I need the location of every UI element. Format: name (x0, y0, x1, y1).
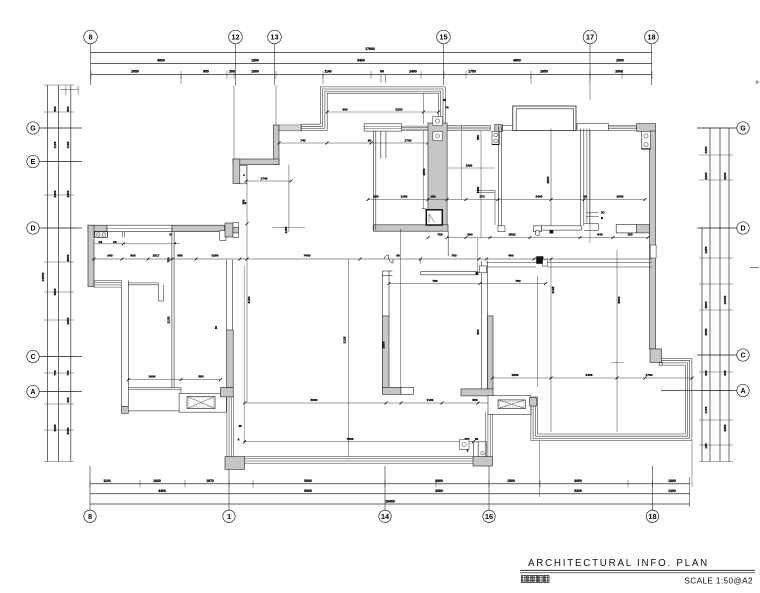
svg-text:16: 16 (485, 512, 493, 521)
svg-text:780: 780 (451, 254, 456, 258)
svg-text:13: 13 (270, 33, 278, 42)
svg-text:250: 250 (373, 195, 378, 199)
svg-text:C: C (30, 354, 35, 361)
svg-text:5050: 5050 (66, 427, 70, 434)
svg-text:1800: 1800 (149, 375, 156, 379)
svg-text:8: 8 (88, 33, 92, 42)
svg-text:1100: 1100 (427, 398, 434, 402)
svg-text:B: B (601, 216, 603, 220)
svg-text:D: D (740, 226, 745, 233)
svg-text:1500: 1500 (512, 373, 519, 377)
svg-text:5000: 5000 (311, 398, 318, 402)
svg-text:1750: 1750 (468, 70, 476, 74)
svg-text:700: 700 (53, 370, 57, 375)
svg-text:200: 200 (229, 70, 235, 74)
svg-text:4600: 4600 (704, 301, 708, 308)
svg-text:2950: 2950 (540, 70, 548, 74)
svg-text:2000: 2000 (615, 70, 623, 74)
svg-text:2125: 2125 (551, 286, 555, 293)
svg-text:1300: 1300 (251, 70, 259, 74)
svg-text:G: G (740, 126, 746, 133)
svg-text:1200: 1200 (668, 489, 676, 493)
svg-text:3260: 3260 (212, 254, 219, 258)
svg-text:170: 170 (479, 195, 484, 199)
svg-text:18: 18 (647, 33, 655, 42)
svg-text:E: E (31, 159, 36, 166)
svg-text:74: 74 (446, 106, 449, 110)
svg-text:2850: 2850 (382, 341, 386, 348)
svg-text:1100: 1100 (103, 479, 110, 483)
svg-text:150: 150 (704, 443, 708, 448)
svg-text:1150: 1150 (284, 226, 288, 233)
svg-text:18: 18 (648, 512, 656, 521)
svg-text:2400: 2400 (409, 70, 417, 74)
svg-text:A: A (740, 388, 745, 395)
svg-text:1620: 1620 (153, 479, 161, 483)
svg-text:1: 1 (227, 512, 231, 521)
svg-text:500: 500 (53, 106, 57, 111)
svg-text:1100: 1100 (704, 406, 708, 413)
svg-text:9800: 9800 (66, 254, 70, 261)
svg-text:550: 550 (472, 398, 477, 402)
svg-text:750: 750 (167, 257, 171, 262)
svg-text:2200: 2200 (723, 172, 727, 179)
svg-text:1100: 1100 (66, 141, 70, 148)
svg-text:1200: 1200 (704, 146, 708, 153)
svg-text:500: 500 (66, 106, 70, 111)
svg-text:540: 540 (597, 233, 602, 237)
svg-text:10600: 10600 (723, 295, 727, 304)
svg-text:17900: 17900 (365, 47, 375, 51)
svg-text:900: 900 (107, 254, 112, 258)
svg-text:2400: 2400 (66, 190, 70, 197)
svg-text:2200: 2200 (396, 107, 403, 111)
svg-text:1700: 1700 (405, 138, 412, 142)
svg-text:12: 12 (231, 33, 239, 42)
svg-text:3300: 3300 (435, 489, 443, 493)
svg-text:4150: 4150 (247, 296, 251, 303)
svg-text:ARCHITECTURAL INFO. PLAN: ARCHITECTURAL INFO. PLAN (528, 558, 709, 569)
svg-text:1670: 1670 (206, 479, 214, 483)
svg-text:2400: 2400 (53, 190, 57, 197)
svg-text:4600: 4600 (157, 58, 165, 62)
svg-text:17: 17 (586, 33, 594, 42)
svg-text:90: 90 (368, 138, 372, 142)
svg-text:1700: 1700 (646, 373, 653, 377)
svg-text:2300: 2300 (66, 317, 70, 324)
svg-text:90: 90 (380, 70, 384, 74)
svg-text:4600: 4600 (53, 288, 57, 295)
svg-text:14: 14 (381, 512, 390, 521)
svg-text:2125: 2125 (167, 316, 171, 323)
svg-text:3400: 3400 (586, 373, 593, 377)
svg-text:15: 15 (439, 33, 447, 42)
svg-text:740: 740 (300, 138, 305, 142)
svg-text:2200: 2200 (704, 172, 708, 179)
svg-text:780: 780 (437, 233, 442, 237)
svg-text:7500: 7500 (347, 437, 354, 441)
svg-text:5000: 5000 (304, 479, 312, 483)
svg-text:950: 950 (241, 199, 245, 204)
svg-text:780: 780 (515, 279, 520, 283)
svg-text:C9: C9 (113, 240, 117, 244)
svg-text:D: D (30, 226, 35, 233)
svg-text:90: 90 (475, 437, 479, 441)
svg-text:850: 850 (476, 135, 480, 140)
svg-text:850: 850 (177, 254, 182, 258)
svg-text:2800: 2800 (617, 195, 624, 199)
svg-text:900: 900 (342, 107, 347, 111)
svg-text:850: 850 (476, 329, 480, 334)
svg-text:700: 700 (66, 370, 70, 375)
svg-text:1517: 1517 (153, 254, 160, 258)
svg-text:2400: 2400 (536, 195, 543, 199)
svg-text:2050: 2050 (704, 328, 708, 335)
svg-text:5400: 5400 (357, 58, 365, 62)
svg-text:A: A (30, 389, 35, 396)
svg-text:2600: 2600 (422, 168, 426, 175)
svg-text:1100: 1100 (53, 141, 57, 148)
svg-text:600: 600 (130, 254, 135, 258)
svg-text:600: 600 (467, 233, 472, 237)
svg-text:3C: 3C (601, 211, 605, 215)
svg-text:90: 90 (396, 254, 400, 258)
svg-text:1300: 1300 (668, 479, 676, 483)
svg-text:48: 48 (239, 424, 242, 428)
svg-text:3250: 3250 (53, 424, 57, 431)
svg-text:5800: 5800 (617, 296, 621, 303)
svg-text:1150: 1150 (401, 195, 408, 199)
svg-text:1500: 1500 (507, 479, 515, 483)
svg-text:B: B (170, 234, 172, 237)
svg-text:1740: 1740 (261, 176, 268, 180)
svg-text:C: C (740, 353, 745, 360)
svg-text:4400: 4400 (158, 489, 166, 493)
svg-text:1300: 1300 (251, 58, 259, 62)
svg-text:5000: 5000 (304, 489, 312, 493)
svg-text:3400: 3400 (476, 186, 480, 193)
svg-text:2050: 2050 (131, 70, 139, 74)
svg-text:3300: 3300 (435, 479, 443, 483)
svg-text:950: 950 (203, 70, 209, 74)
svg-text:2125: 2125 (343, 336, 347, 343)
svg-text:3250: 3250 (723, 424, 727, 431)
svg-text:19400: 19400 (385, 499, 395, 503)
svg-text:2520: 2520 (509, 233, 516, 237)
svg-text:550: 550 (198, 375, 203, 379)
svg-text:10500: 10500 (41, 272, 45, 281)
svg-text:160: 160 (627, 233, 632, 237)
svg-text:1250: 1250 (704, 246, 708, 253)
svg-text:480: 480 (508, 254, 513, 258)
svg-text:8: 8 (88, 512, 92, 521)
svg-text:3000: 3000 (574, 479, 582, 483)
svg-text:600: 600 (66, 397, 70, 402)
svg-text:G: G (30, 126, 36, 133)
svg-text:150: 150 (430, 195, 435, 199)
svg-text:SCALE 1:50@A2: SCALE 1:50@A2 (684, 577, 753, 586)
svg-text:2000: 2000 (616, 58, 624, 62)
svg-text:C9: C9 (99, 240, 103, 244)
svg-text:20: 20 (443, 98, 446, 102)
svg-text:900: 900 (704, 370, 708, 375)
svg-text:1800: 1800 (466, 163, 473, 167)
svg-text:1140: 1140 (324, 70, 331, 74)
svg-text:750: 750 (432, 279, 437, 283)
svg-text:4600: 4600 (513, 58, 521, 62)
svg-text:7400: 7400 (304, 254, 311, 258)
svg-text:30: 30 (214, 326, 218, 330)
svg-text:2800: 2800 (546, 176, 550, 183)
svg-text:900: 900 (723, 370, 727, 375)
svg-text:5200: 5200 (574, 489, 582, 493)
